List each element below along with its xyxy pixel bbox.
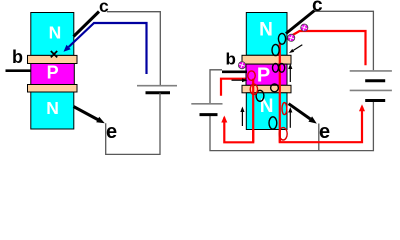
battery B1 short plate (-) <box>146 91 171 94</box>
battery B3 long plate 2 <box>350 89 392 91</box>
svg-text:e: e <box>106 121 117 143</box>
svg-text:b: b <box>12 47 23 67</box>
base lead b <box>6 69 32 72</box>
svg-text:N: N <box>260 96 274 117</box>
svg-text:P: P <box>257 65 270 87</box>
electron ellipse in N collector 2 <box>272 44 279 55</box>
battery B2 short plate (-) <box>200 113 218 116</box>
electron ellipse in N collector 1 <box>278 33 285 44</box>
red vertical base return inside stack (redraw over blocks) <box>252 79 254 143</box>
hole ellipse at emitter right edge <box>282 103 287 115</box>
electron ellipse in P base 1 <box>273 63 279 72</box>
collector lead <box>74 12 100 37</box>
red wire: electron path through stack and bottom to battery B3 <box>280 43 365 143</box>
wire: collector to battery B1 top <box>107 12 160 85</box>
emitter lead (arrow) <box>74 107 105 124</box>
wire: battery B2 top to base lead <box>210 70 222 103</box>
svg-text:N: N <box>259 20 273 41</box>
thin arrow up, right of emitter block <box>288 107 292 128</box>
depletion strip (lower junction), right stack <box>242 85 291 93</box>
thin arrow up, right of base block <box>288 64 292 83</box>
circled-plus carrier near base lead <box>238 61 246 69</box>
battery B3 short plate 2 <box>365 99 385 102</box>
battery B2 long plate (+) <box>191 103 222 105</box>
red wire: collector current exit to battery B3 top <box>280 31 366 65</box>
wire: collector to battery B3 top <box>315 11 374 70</box>
wire: emitter down to bottom rail <box>318 124 320 151</box>
electron ellipse in P base 2 <box>279 63 285 72</box>
svg-text:c: c <box>312 0 323 16</box>
battery B1 long plate (+) <box>137 85 177 87</box>
svg-text:N: N <box>46 98 59 118</box>
circled-plus carrier on collector exit 1 <box>287 34 295 42</box>
collector lead (right) <box>286 11 315 34</box>
N region (emitter), left stack <box>31 92 74 129</box>
emitter lead (arrow, right) <box>289 104 317 124</box>
depletion strip (upper junction), right stack <box>242 55 291 64</box>
hole ellipse below base entry <box>250 84 257 94</box>
svg-text:P: P <box>47 62 59 82</box>
electron ellipse in lower depletion strip <box>271 84 279 92</box>
N region (collector), left stack <box>31 13 74 56</box>
depletion strip (upper junction), left stack <box>28 55 78 63</box>
svg-text:c: c <box>99 0 109 16</box>
wire: battery B3 bottom to common bottom rail and battery B2 <box>210 101 373 151</box>
red wire: battery B2 top to base region <box>221 79 251 96</box>
x junction marker <box>51 51 57 57</box>
wire: battery B1 bottom to emitter <box>106 93 160 155</box>
P region (base), left stack <box>31 62 75 84</box>
red wire: base return to battery B2 bottom <box>221 79 253 143</box>
base lead b (right) <box>222 71 247 74</box>
circled-plus carrier on collector exit 2 <box>300 24 308 32</box>
svg-text:e: e <box>319 121 330 143</box>
hole ellipse below emitter <box>279 128 287 140</box>
svg-text:N: N <box>49 22 62 42</box>
N region (collector), right stack <box>246 13 287 56</box>
N region (emitter), right stack <box>246 93 287 130</box>
electron ellipse at lower junction left <box>256 90 264 101</box>
P region (base), right stack <box>246 64 287 86</box>
svg-text:b: b <box>226 50 236 69</box>
thin arrow right on base feed <box>232 78 248 82</box>
red vertical electron path inside stack (redraw over blocks) <box>279 43 281 143</box>
hole ellipse at base entry <box>248 71 256 80</box>
thin arrow pointing to collector junction <box>289 45 302 53</box>
battery B3 long plate 1 <box>350 70 392 72</box>
depletion strip (lower junction), left stack <box>28 85 78 93</box>
battery B3 short plate 1 <box>365 79 385 82</box>
electron ellipse in N emitter <box>269 117 277 129</box>
thin arrow up, left of emitter block <box>240 107 244 127</box>
blue arrow pointing at collector junction <box>64 23 147 74</box>
